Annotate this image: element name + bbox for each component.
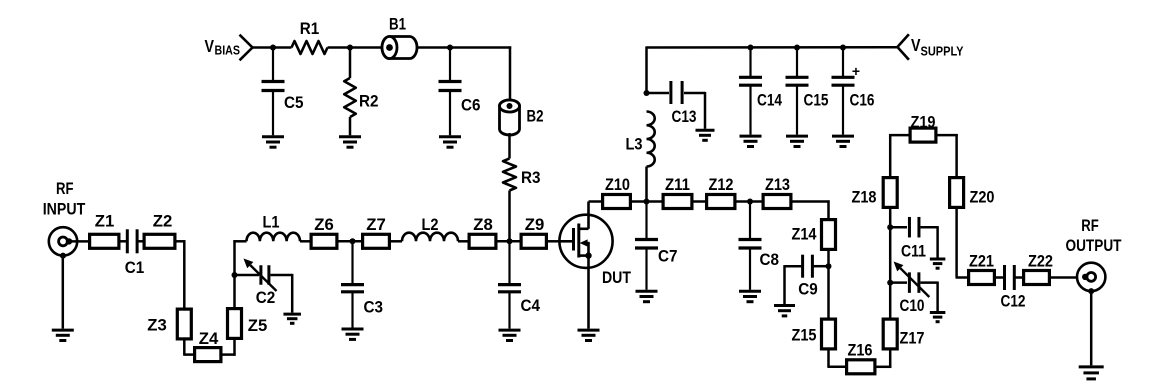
ground below C3: [342, 329, 364, 339]
svg-text:V: V: [205, 36, 215, 56]
wire corner down to Z3: [183, 240, 186, 309]
svg-text:C15: C15: [804, 90, 829, 109]
microstrip Z8: [469, 215, 496, 248]
wire C2 to corner: [271, 274, 293, 277]
microstrip Z10: [603, 175, 631, 208]
wire R1 to B1: [328, 46, 383, 49]
wire L2 to Z8: [458, 240, 469, 243]
microstrip Z20: [950, 178, 995, 208]
wire Z12 to Z13: [736, 200, 763, 203]
wire C1 to Z2: [139, 240, 144, 243]
wire node to C11: [890, 226, 907, 229]
capacitor C6: [439, 48, 481, 135]
wire corner to Z21: [956, 276, 969, 279]
ground below C6: [439, 137, 461, 147]
node Z6/Z7/C3 junction: [350, 238, 356, 244]
svg-text:C12: C12: [1001, 291, 1026, 310]
node C2 tap junction: [232, 272, 238, 278]
ground below input connector: [52, 330, 74, 340]
svg-text:Z12: Z12: [709, 175, 734, 194]
capacitor C1: [125, 229, 145, 277]
wire B2 to R3: [508, 133, 511, 159]
ground below C13: [696, 130, 715, 140]
wire input shield to ground: [62, 256, 65, 328]
wire Z10 to Z11: [631, 200, 663, 203]
wire L1 to Z6: [300, 240, 310, 243]
svg-text:C5: C5: [284, 93, 304, 112]
wire C9 to corner: [785, 265, 803, 268]
node C13/L3 junction: [644, 90, 650, 96]
svg-text:Z9: Z9: [525, 215, 545, 234]
wire Z3 to bottom corner: [183, 340, 186, 355]
svg-text:C6: C6: [461, 96, 481, 115]
capacitor C12: [1001, 265, 1026, 310]
wire C11 corner down: [936, 226, 939, 257]
svg-text:L1: L1: [263, 213, 280, 232]
wire Z4 to corner: [222, 353, 236, 356]
svg-text:Z21: Z21: [969, 251, 994, 270]
ground below C16: [832, 136, 854, 146]
node Z8/Z9/C4/R3 junction: [507, 238, 513, 244]
wire corner to L1: [233, 240, 246, 243]
wire C2 corner down: [291, 274, 294, 313]
node bias/C6 junction: [447, 45, 453, 51]
node Z12/Z13/C8 junction: [747, 199, 753, 205]
RF INPUT label: [43, 179, 86, 219]
microstrip Z21: [969, 251, 995, 284]
microstrip Z16: [847, 340, 875, 374]
wire bias rail: arrow to R1: [253, 46, 292, 49]
RF input coax connector J1: [49, 227, 77, 258]
wire corner down to Z14: [827, 200, 830, 219]
svg-text:C10: C10: [900, 296, 925, 315]
node C9 junction: [826, 263, 832, 269]
ground below R2: [339, 137, 361, 147]
capacitor C5: [262, 48, 304, 135]
wire L3 to drain node: [645, 167, 648, 202]
wire Z20 down to output corner: [955, 207, 958, 278]
svg-text:C2: C2: [256, 288, 276, 307]
capacitor C11: [901, 217, 926, 261]
ground below C10: [930, 313, 946, 322]
wire corner to Z4: [183, 353, 195, 356]
svg-text:Z20: Z20: [970, 187, 995, 206]
ground below output connector: [1079, 367, 1104, 379]
inductor L3: [626, 112, 655, 167]
wire Z13 to corner: [792, 200, 830, 203]
wire corner to Z16: [827, 366, 846, 369]
svg-text:Z5: Z5: [248, 316, 268, 335]
svg-text:Z15: Z15: [792, 325, 817, 344]
node drain/L3/C7 junction: [644, 199, 650, 205]
RF output coax connector J2: [1077, 263, 1105, 294]
node bias/C5 junction: [270, 45, 276, 51]
ground below C15: [786, 136, 808, 146]
wire node to C2: [235, 274, 260, 277]
svg-text:Z2: Z2: [153, 212, 173, 231]
microstrip Z4: [195, 329, 221, 362]
capacitor C8: [739, 202, 780, 290]
ground below C9: [774, 306, 795, 316]
svg-text:Z7: Z7: [366, 215, 386, 234]
wire input connector to Z1: [69, 240, 88, 243]
capacitor C3: [341, 241, 383, 327]
microstrip Z2: [144, 212, 175, 249]
svg-text:Z6: Z6: [314, 215, 334, 234]
svg-text:Z10: Z10: [605, 175, 630, 194]
node supply/C16 junction: [840, 45, 846, 51]
svg-text:Z8: Z8: [473, 215, 493, 234]
microstrip Z12: [707, 175, 735, 208]
wire Z2 to corner: [175, 240, 185, 243]
microstrip Z7: [363, 215, 390, 248]
microstrip Z11: [663, 175, 692, 208]
wire node to R2: [349, 48, 352, 79]
svg-text:Z18: Z18: [852, 187, 877, 206]
wire corner to Z19: [889, 134, 909, 137]
variable capacitor C10: [894, 262, 930, 316]
wire Z21 to C12: [994, 276, 1004, 279]
capacitor C9: [798, 255, 818, 299]
node supply/C15 junction: [794, 45, 800, 51]
ground below C4: [499, 330, 521, 340]
wire Z22 to output connector: [1049, 276, 1085, 279]
variable capacitor C2: [244, 259, 277, 308]
wire bias corner down to B2: [509, 46, 512, 106]
wire C11 to corner: [921, 226, 938, 229]
svg-text:Z22: Z22: [1028, 251, 1053, 270]
svg-text:R1: R1: [300, 19, 320, 38]
wire output shield to ground: [1090, 292, 1093, 366]
capacitor C14: [739, 48, 782, 135]
svg-text:Z11: Z11: [665, 175, 690, 194]
ferrite bead B1: [382, 15, 417, 59]
wire Z18 up to Z19 corner: [889, 134, 892, 177]
svg-text:V: V: [911, 35, 921, 55]
svg-text:Z17: Z17: [900, 329, 925, 348]
wire Z5 up to L1 corner: [233, 240, 236, 308]
wire corner up to Z17: [889, 350, 892, 368]
wire corner down to Z20: [955, 134, 958, 177]
transistor DUT (MOSFET): [559, 202, 631, 329]
node bias/R2 junction: [347, 45, 353, 51]
svg-text:C4: C4: [521, 296, 541, 315]
svg-text:C7: C7: [658, 247, 678, 266]
svg-text:BIAS: BIAS: [215, 43, 241, 58]
V_SUPPLY off-page arrow: [897, 34, 909, 60]
inductor L2: [402, 215, 458, 241]
svg-text:C14: C14: [757, 90, 782, 109]
V_BIAS label: [205, 36, 241, 58]
wire Z9 to DUT gate: [547, 240, 561, 243]
wire R3 down to gate line: [508, 191, 511, 242]
wire R2 to ground: [349, 117, 352, 135]
wire Z1 to C1: [121, 240, 127, 243]
wire Z16 to corner: [876, 366, 892, 369]
wire Z6 to Z7: [338, 240, 363, 243]
RF OUTPUT label: [1066, 216, 1122, 255]
capacitor C7: [635, 202, 678, 290]
svg-text:Z4: Z4: [199, 329, 219, 348]
svg-text:B1: B1: [389, 15, 406, 34]
wire node to C10: [890, 281, 907, 284]
ground below C5: [262, 137, 284, 147]
inductor L1: [247, 213, 301, 242]
resistor R1: [292, 19, 328, 54]
wire Z8 to Z9: [497, 240, 521, 243]
wire Z15 to bottom corner: [827, 350, 830, 367]
node supply/C14 junction: [748, 45, 754, 51]
svg-text:Z19: Z19: [911, 112, 936, 131]
svg-text:L3: L3: [626, 135, 643, 154]
plus sign of C16: [852, 63, 860, 79]
microstrip Z22: [1024, 251, 1053, 284]
microstrip Z6: [311, 215, 337, 248]
svg-text:Z3: Z3: [147, 316, 167, 335]
capacitor C4: [498, 241, 540, 328]
svg-text:C13: C13: [672, 107, 697, 126]
wire C12 to Z22: [1016, 276, 1024, 279]
wire Z14 to Z15: [827, 250, 830, 320]
ferrite bead B2: [500, 100, 544, 135]
microstrip Z15: [792, 319, 836, 349]
wire drain corner to Z10: [589, 200, 603, 203]
capacitor C16 (electrolytic): [832, 48, 875, 135]
svg-text:L2: L2: [422, 215, 439, 234]
ground below C7: [636, 291, 658, 301]
svg-text:C9: C9: [798, 279, 818, 298]
svg-text:R2: R2: [359, 92, 379, 111]
microstrip Z9: [521, 215, 546, 248]
resistor R3: [503, 159, 541, 191]
wire Z11 to Z12: [693, 200, 707, 203]
svg-text:Z13: Z13: [765, 175, 790, 194]
svg-text:Z1: Z1: [95, 212, 115, 231]
microstrip Z13: [763, 175, 791, 208]
wire node to C13: [647, 92, 670, 95]
svg-text:SUPPLY: SUPPLY: [921, 44, 964, 59]
wire supply rail: [647, 46, 898, 49]
resistor R2: [344, 78, 378, 117]
capacitor C15: [786, 48, 829, 135]
ground below C14: [740, 136, 762, 146]
wire node to C9 right plate: [813, 265, 829, 268]
svg-text:OUTPUT: OUTPUT: [1066, 236, 1122, 255]
svg-text:DUT: DUT: [602, 268, 631, 287]
svg-text:+: +: [852, 63, 860, 79]
svg-text:B2: B2: [527, 107, 544, 126]
wire Z17 up through C10/C11 nodes to Z18: [889, 208, 892, 320]
wire C10 corner down: [936, 282, 939, 312]
wire C10 to corner: [921, 281, 938, 284]
microstrip Z19: [910, 112, 936, 142]
V_BIAS off-page arrow: [240, 35, 253, 61]
microstrip Z14: [792, 220, 836, 250]
microstrip Z1: [90, 212, 119, 249]
svg-text:R3: R3: [521, 168, 541, 187]
svg-text:C16: C16: [850, 90, 875, 109]
wire B1 to corner: [417, 46, 512, 49]
microstrip Z18: [852, 178, 898, 208]
node C11 junction: [887, 224, 893, 230]
microstrip Z5: [228, 309, 268, 339]
ground below C2: [283, 314, 301, 323]
svg-text:RF: RF: [56, 179, 74, 198]
svg-text:Z16: Z16: [848, 340, 873, 359]
wire Z19 to corner: [937, 134, 958, 137]
wire C9 corner down: [783, 265, 786, 304]
ground below DUT source: [578, 330, 600, 340]
ground below C8: [739, 291, 761, 301]
svg-text:RF: RF: [1081, 216, 1099, 235]
capacitor C13: [671, 81, 697, 126]
ground below C11: [930, 259, 946, 268]
wire C13 to corner: [684, 92, 705, 95]
wire corner up to Z5: [233, 338, 236, 356]
microstrip Z3: [147, 309, 191, 339]
svg-text:C1: C1: [125, 258, 145, 277]
node C10 junction: [887, 280, 893, 286]
svg-text:C11: C11: [901, 242, 926, 261]
V_SUPPLY label: [911, 35, 964, 59]
wire supply corner down to C13 node: [645, 46, 648, 93]
wire Z7 to L2: [390, 240, 402, 243]
svg-text:INPUT: INPUT: [43, 199, 86, 218]
wire C13 corner down: [704, 92, 707, 129]
microstrip Z17: [883, 319, 924, 349]
svg-text:C3: C3: [364, 298, 384, 317]
svg-text:C8: C8: [760, 250, 780, 269]
svg-text:Z14: Z14: [792, 224, 817, 243]
